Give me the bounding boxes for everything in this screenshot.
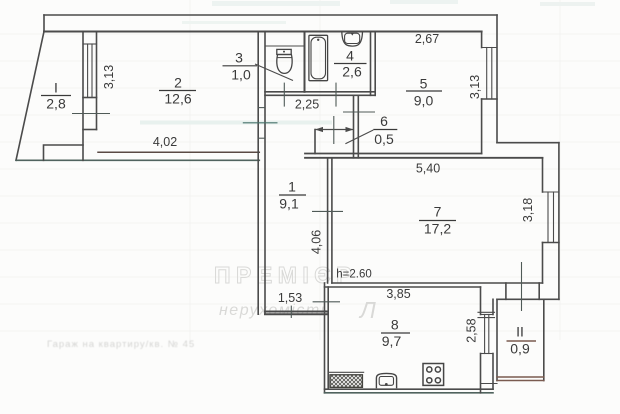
kitchen window caps xyxy=(482,47,497,49)
balcony I step xyxy=(44,145,84,160)
room8 right wall outer line lower xyxy=(492,354,494,390)
closet west wall line b xyxy=(357,95,359,158)
svg-text:9,1: 9,1 xyxy=(279,196,299,212)
svg-text:3,13: 3,13 xyxy=(102,65,116,89)
svg-text:Л: Л xyxy=(358,297,376,323)
step line room8/balcony xyxy=(481,383,498,385)
top inner wall line xyxy=(44,31,482,33)
room6 top arrow line xyxy=(316,129,353,131)
corridor right wall line a xyxy=(327,158,329,283)
kitchen bottom wall xyxy=(305,153,482,155)
room7 window inner lines xyxy=(547,192,549,243)
top wall left edge xyxy=(43,15,45,32)
outer wall step to the right xyxy=(497,142,559,144)
leader line label 3 xyxy=(255,64,293,81)
tick corridor bottom xyxy=(290,306,292,318)
balcony II door jamb right xyxy=(538,283,540,299)
balcony door jamb a xyxy=(478,311,495,313)
toilet/bath divider wall xyxy=(304,32,306,92)
toilet room shaft line xyxy=(265,45,305,47)
corridor/rooms left wall line b xyxy=(264,32,266,315)
kitchen sink xyxy=(376,373,396,388)
svg-text:0,9: 0,9 xyxy=(510,341,530,357)
svg-text:9,7: 9,7 xyxy=(382,333,402,349)
faint top smudges xyxy=(140,0,595,125)
bath/kitchen wall line b xyxy=(374,32,376,96)
room7 bottom inner wall xyxy=(332,282,543,284)
svg-text:1: 1 xyxy=(288,179,296,195)
tick balcony I wall xyxy=(72,113,110,115)
room7/balcony wall bottom outer xyxy=(497,298,559,300)
svg-text:2: 2 xyxy=(174,75,182,91)
closet west wall line a xyxy=(353,95,355,158)
room7 top wall xyxy=(305,157,543,159)
svg-text:3,85: 3,85 xyxy=(386,287,410,301)
svg-text:2,8: 2,8 xyxy=(46,96,66,112)
balcony II bottom line a xyxy=(497,376,544,378)
balcony door jamb b xyxy=(478,317,495,319)
svg-text:5,40: 5,40 xyxy=(416,162,440,176)
kitchen crosshatched unit xyxy=(329,372,365,387)
tick room8 door xyxy=(313,301,340,303)
svg-text:4: 4 xyxy=(346,48,354,64)
room8 right wall inner line lower xyxy=(480,354,482,393)
room8 window inner lines xyxy=(484,315,486,354)
kitchen right wall upper xyxy=(481,32,483,48)
svg-text:3,13: 3,13 xyxy=(468,75,482,99)
corridor bottom wall line b xyxy=(265,313,328,315)
svg-text:4,06: 4,06 xyxy=(309,230,323,254)
svg-text:h=2.60: h=2.60 xyxy=(336,269,372,281)
bathroom bottom wall line b xyxy=(265,94,375,96)
svg-text:17,2: 17,2 xyxy=(424,221,451,237)
bathtub fixture xyxy=(309,35,328,80)
svg-text:9,0: 9,0 xyxy=(414,93,434,109)
washbasin fixture xyxy=(342,32,363,47)
svg-text:8: 8 xyxy=(391,317,399,333)
wall jog under W1 xyxy=(83,129,97,131)
svg-text:5: 5 xyxy=(420,76,428,92)
room8 bottom wall line a xyxy=(325,388,494,390)
room8 top wall xyxy=(325,286,481,288)
svg-text:1,53: 1,53 xyxy=(278,291,302,305)
room6 left edge xyxy=(314,130,316,154)
svg-text:2,6: 2,6 xyxy=(342,64,362,80)
room8 window caps xyxy=(481,314,494,316)
top outer wall line xyxy=(44,14,497,16)
svg-text:3: 3 xyxy=(235,50,243,66)
room8 left wall line b xyxy=(327,287,329,389)
room6 arrowheads xyxy=(315,127,354,132)
room8 bottom wall line b xyxy=(325,392,494,394)
tick room6 xyxy=(333,116,335,144)
tick corridor left wall upper xyxy=(258,107,265,109)
svg-text:4,02: 4,02 xyxy=(153,135,177,149)
balcony II right wall xyxy=(543,299,545,380)
window W1 left line xyxy=(82,32,84,161)
svg-text:II: II xyxy=(516,324,524,340)
kitchen window inner lines xyxy=(486,48,488,100)
tick toilet door xyxy=(283,83,285,107)
window W1 inner lines xyxy=(87,44,89,98)
balcony II door jamb left xyxy=(505,283,507,299)
svg-text:I: I xyxy=(54,80,58,96)
svg-text:6: 6 xyxy=(380,113,388,129)
svg-text:3,18: 3,18 xyxy=(521,198,535,222)
corridor bottom wall line a xyxy=(265,311,328,313)
svg-text:2,58: 2,58 xyxy=(465,318,479,342)
corridor/rooms left wall line a xyxy=(257,32,259,315)
tick corridor left wall lower xyxy=(258,137,265,139)
balcony I slant wall xyxy=(16,32,44,161)
svg-text:2,67: 2,67 xyxy=(415,32,439,46)
svg-text:0,5: 0,5 xyxy=(374,131,394,147)
window W1 caps xyxy=(83,43,97,45)
room2 bottom inner wall xyxy=(98,151,259,153)
tick corridor left wall door (teal) xyxy=(243,122,278,124)
balcony II left wall xyxy=(496,299,498,380)
room7 window caps xyxy=(543,191,559,193)
corridor right wall line b xyxy=(331,158,333,283)
bath/kitchen wall line a xyxy=(370,32,372,96)
dimension texts xyxy=(102,32,535,343)
room7 right inner wall upper xyxy=(542,158,544,192)
tick room7 balcony door xyxy=(521,262,523,311)
window W1 right line xyxy=(96,32,98,130)
bathroom bottom wall line a xyxy=(265,91,375,93)
svg-text:12,6: 12,6 xyxy=(164,91,191,107)
leader line label 6 xyxy=(345,130,373,144)
balcony II bottom line b xyxy=(497,380,544,382)
tick bath door xyxy=(335,83,337,107)
svg-text:1,0: 1,0 xyxy=(231,67,251,83)
kitchen window left line lower xyxy=(481,99,483,154)
svg-text:2,25: 2,25 xyxy=(295,98,319,112)
svg-text:7: 7 xyxy=(434,204,442,220)
kitchen stove xyxy=(423,364,444,386)
tick lobby/kitchen wall xyxy=(343,111,375,113)
svg-text:Гараж на квартиру/кв. № 45: Гараж на квартиру/кв. № 45 xyxy=(47,339,195,350)
tick corridor right wall xyxy=(312,210,343,212)
dimension/door ticks xyxy=(72,83,522,318)
balcony I / room2 bottom outer wall xyxy=(16,159,259,161)
room8 left wall line a xyxy=(324,283,326,393)
right outer wall xyxy=(558,143,560,300)
toilet fixture xyxy=(277,49,292,73)
room7 right inner wall lower xyxy=(542,243,544,284)
right outer wall top segment xyxy=(496,15,498,143)
room8 right wall outer line xyxy=(492,299,494,314)
room8 right wall inner line xyxy=(480,287,482,315)
